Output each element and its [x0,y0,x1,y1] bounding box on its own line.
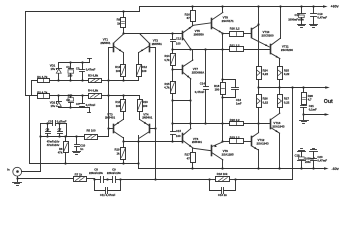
resistor R28 [302,86,314,104]
svg-text:1n: 1n [80,147,84,151]
svg-text:2SC5200: 2SC5200 [262,33,274,37]
transistor VT6 [183,129,203,149]
wire fb left [119,178,209,180]
resistor R3 [88,74,102,83]
svg-text:100: 100 [142,69,147,73]
wire output rail [259,87,320,89]
wire VT9 base [193,148,211,151]
wire R14 R15 [171,66,173,82]
wire VAS row bottom [173,122,271,124]
wire VT12 emitter [257,150,259,170]
ground zobel [300,115,309,124]
svg-text:2SA1295: 2SA1295 [222,152,234,156]
wire feedback drop [291,86,293,179]
svg-text:47mFx16v: 47mFx16v [47,140,60,144]
wire R1 row [50,80,89,82]
wire R5 to base [98,129,109,137]
svg-text:0,22: 0,22 [284,72,290,76]
power -60v terminal [320,167,339,171]
svg-text:0,22: 0,22 [263,100,269,104]
wire R3 to bus [102,79,110,81]
wire -60V bottom rail [139,168,323,170]
svg-text:2N5551: 2N5551 [100,41,111,45]
svg-text:C13 2n: C13 2n [218,193,227,197]
capacitor C6 [46,122,51,137]
svg-text:2N5401: 2N5401 [142,116,153,120]
transistor VT4 [139,112,157,138]
resistor R22 [230,118,271,126]
capacitor C18 [294,152,315,170]
wire VT2 emitter [138,53,140,65]
connector In [7,167,22,176]
wire C5 block right [66,124,68,137]
wire top-left rail [26,11,140,13]
svg-text:C4: C4 [76,102,80,106]
wire +60V top rail [140,6,322,8]
node VAS row mid [189,122,191,124]
resistor R15 [164,82,175,94]
svg-text:Out: Out [324,99,333,105]
svg-text:C17: C17 [294,13,300,17]
svg-text:C12: C12 [176,36,182,40]
svg-text:67: 67 [187,16,191,20]
wire bias chain [221,32,223,82]
svg-text:15v: 15v [51,67,56,71]
wire feedback line [236,179,293,181]
zener VD1 [50,63,62,81]
node C1 top [69,61,71,81]
svg-text:220mFx16v: 220mFx16v [89,171,104,175]
wire R1 feed [32,81,38,96]
svg-text:0,1mF: 0,1mF [309,108,317,112]
resistor R21 [230,44,244,52]
capacitor C4 [76,96,96,108]
capacitor C8 [89,168,108,183]
svg-text:1k: 1k [117,21,121,25]
transistor VT8 [212,5,235,33]
svg-text:2N5550: 2N5550 [194,32,205,36]
capacitor C10 [75,135,86,151]
wire In shield [16,177,18,182]
svg-text:4,7k: 4,7k [164,58,170,62]
capacitor C19 [311,5,328,24]
capacitor C16 [221,78,242,105]
wire R11 lead [122,94,124,99]
capacitor C2 [66,94,73,108]
ground C17 [298,25,306,28]
svg-text:100: 100 [116,104,121,108]
transistor VT12 [251,133,269,150]
svg-text:C14: C14 [200,81,206,85]
svg-text:47: 47 [187,156,191,160]
transistor VT3 [105,112,123,138]
resistor R26 [257,88,269,108]
svg-text:1000mFx63v: 1000mFx63v [288,17,304,21]
svg-text:47k: 47k [58,151,63,155]
ground In [13,183,22,186]
wire collector bar top [122,32,182,34]
wire base line left [108,48,110,137]
label cap values [47,140,60,147]
svg-text:R3 6,8k: R3 6,8k [88,74,99,78]
svg-text:C3: C3 [76,66,80,70]
wire R25 out [278,80,280,89]
transistor VT5 [183,26,205,50]
wire R3 row ext [109,80,139,82]
svg-text:2SC5171: 2SC5171 [222,19,234,23]
wire In riser [40,124,42,172]
svg-text:C7: C7 [58,128,62,132]
svg-text:4,7: 4,7 [308,98,312,102]
svg-text:1k: 1k [116,151,120,155]
resistor R2 [37,90,49,98]
transistor VT11 [271,5,294,58]
wire rail step [139,7,141,12]
resistor R23 [223,136,251,144]
resistor R10 [115,65,125,77]
svg-text:2N5551: 2N5551 [152,42,163,46]
wire VT8 base [193,23,211,26]
svg-text:2N5401: 2N5401 [105,116,116,120]
resistor R9 [117,10,126,33]
resistor R27 [278,88,290,108]
svg-text:-60v: -60v [332,167,339,171]
svg-text:C18: C18 [294,153,300,157]
svg-text:0,22: 0,22 [284,100,290,104]
capacitor C3 [76,63,96,81]
ground C20 [310,149,318,152]
capacitor C1 [66,63,73,81]
wire fb mid [208,178,236,180]
wire input row [39,135,84,137]
node zobel [302,113,304,115]
svg-text:4,7k: 4,7k [164,86,170,90]
svg-text:100: 100 [116,69,121,73]
resistor R17 [185,149,196,170]
zener VD2 [50,96,62,109]
wire R4 to bus [102,94,110,96]
svg-text:100: 100 [176,41,181,45]
wire R13 lead [139,96,141,100]
wire VD1 top rail [59,62,90,64]
capacitor C14 [195,50,209,124]
wire VT11 emitter [279,59,281,67]
wire VD2 bottom rail [59,107,90,109]
capacitor C20 [311,152,328,170]
ground C18 [298,149,306,152]
wire emitter jog [173,99,192,101]
node C4 [81,94,83,96]
svg-text:0,47mF: 0,47mF [195,90,205,94]
wire +60V left bus [26,12,38,96]
wire VT4 emitter [139,112,141,120]
resistor R11 [115,100,125,112]
wire bias chain low [221,95,223,143]
resistor R7 [18,172,95,181]
svg-text:R5 100: R5 100 [86,128,95,132]
resistor R4 [88,89,102,99]
svg-text:1mF: 1mF [236,101,242,105]
wire VT1 emitter [123,53,125,65]
wire collector bar bottom [122,140,182,142]
resistor R12 [137,65,148,77]
svg-text:2SA1943: 2SA1943 [272,125,284,129]
svg-text:100: 100 [68,73,73,77]
wire VT13 emitter [278,134,280,170]
wire VT7 base [173,69,183,71]
resistor R18 bias [214,83,225,95]
capacitor C15 [171,129,182,142]
svg-text:0,47mF: 0,47mF [317,159,327,163]
wire R10 lead [122,77,124,82]
ground C10 [73,152,81,155]
capacitor C11 [95,180,121,197]
svg-text:R4 6,8k: R4 6,8k [88,89,99,93]
node VD1 bottom [57,79,59,81]
svg-text:2N5401: 2N5401 [192,140,203,144]
svg-text:0,22: 0,22 [263,72,269,76]
svg-text:C15: C15 [176,129,182,133]
wire R2 row [50,95,89,97]
svg-text:0,47mF: 0,47mF [317,15,327,19]
svg-text:+60v: +60v [331,4,339,8]
node C3 top [81,61,83,81]
svg-text:220mFx16v: 220mFx16v [107,171,122,175]
svg-text:100: 100 [143,104,148,108]
svg-text:0,47mF: 0,47mF [86,68,96,72]
capacitor C5 [41,120,67,126]
wire R15 down [171,94,173,132]
svg-text:2SC5200: 2SC5200 [281,48,293,52]
svg-text:R1 4,7k: R1 4,7k [37,75,48,79]
transistor VT7 [183,50,206,79]
wire VT3 emitter [123,112,125,120]
resistor R13 [138,100,149,112]
svg-text:2SD669A: 2SD669A [192,70,205,74]
svg-text:C2: C2 [66,98,70,102]
svg-text:180: 180 [215,88,220,92]
resistor R18fb [216,172,230,181]
transistor VT1 [100,34,123,52]
stub top [88,59,92,63]
svg-text:C8: C8 [94,168,98,172]
svg-text:0,47mF: 0,47mF [86,103,96,107]
svg-text:R7 1k: R7 1k [75,172,83,176]
resistor R14 [164,54,175,66]
terminal out return [304,113,330,116]
svg-text:R2 4,7k: R2 4,7k [37,90,48,94]
resistor R25 [278,67,290,80]
wire R24 out [257,80,259,89]
resistor R20 [223,26,251,36]
svg-text:In: In [7,167,10,171]
svg-text:2SA1943: 2SA1943 [257,141,269,145]
node VD2 top [57,94,59,96]
capacitor C13 [210,180,236,198]
svg-text:R23 2,2: R23 2,2 [230,136,240,140]
stub bottom [88,108,91,113]
wire rail corner [138,136,140,169]
transistor VT9 [212,142,235,170]
svg-text:R20 2,2: R20 2,2 [230,26,240,30]
wire In signal [22,171,41,173]
resistor R16 [185,5,196,25]
wire VT7 emitter line [190,79,192,129]
capacitor C21 [301,104,318,114]
svg-text:0,47mF: 0,47mF [57,120,67,124]
wire base line right [154,48,156,181]
svg-text:R22 2,2: R22 2,2 [230,118,240,122]
wire VT3 collector [123,138,125,142]
svg-text:C11 0,47mF: C11 0,47mF [100,193,116,197]
resistor R5 [85,128,98,139]
resistor R24 [257,67,269,80]
capacitor C17 [288,5,305,24]
terminal Out arrow [318,86,334,105]
ground C19 [310,25,318,28]
power +60v terminal [319,4,339,8]
node VT3 base [107,127,109,129]
wire left bottom rail [30,96,139,164]
wire R12 lead [138,77,140,81]
node rail junction [137,162,139,164]
capacitor C7 [58,122,63,137]
transistor VT10 [252,25,274,47]
wire VAS row top [171,48,270,50]
resistor R19 [114,142,125,165]
svg-text:C5: C5 [48,120,52,124]
resistor R6 [58,135,69,164]
transistor VT13 [271,113,285,133]
svg-text:15v: 15v [51,104,56,108]
resistor R1 [37,75,49,82]
svg-text:R18 10k: R18 10k [217,172,228,176]
wire R27 down [279,108,281,114]
capacitor C9 [106,168,121,183]
node C2 [69,94,71,108]
svg-text:C1: C1 [66,65,70,69]
svg-text:100: 100 [176,134,181,138]
svg-text:R21 2,2: R21 2,2 [230,44,240,48]
wire VT10 collector bus [257,5,259,66]
wire R4 row ext [109,95,140,97]
capacitor C12 [171,32,182,53]
svg-text:C9: C9 [112,168,116,172]
wire R26 down [258,108,260,133]
svg-text:C6: C6 [46,128,50,132]
transistor VT2 [139,34,163,53]
